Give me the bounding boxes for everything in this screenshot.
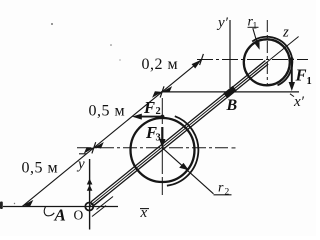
dimension line (parallel to shaft) xyxy=(23,60,202,207)
svg-text:1: 1 xyxy=(253,22,258,32)
svg-text:3: 3 xyxy=(156,133,161,144)
svg-text:y′: y′ xyxy=(216,15,229,31)
z axis (shaft axis extension) xyxy=(230,37,299,93)
force F3 arrow xyxy=(159,127,165,148)
svg-text:x: x xyxy=(140,205,148,221)
svg-text:0,5 м: 0,5 м xyxy=(22,160,59,177)
dimension tick t3 with double arrowheads xyxy=(152,86,172,98)
svg-text:0,5 м: 0,5 м xyxy=(89,103,126,120)
scan edge blob xyxy=(0,202,3,210)
pulley 1 (small) xyxy=(244,39,290,85)
pulley 2 (big) xyxy=(131,118,195,182)
force F1 arrow xyxy=(289,57,295,91)
svg-text:r: r xyxy=(218,181,224,196)
x' end tick xyxy=(290,94,294,97)
scan specks xyxy=(14,23,121,204)
svg-text:z: z xyxy=(282,25,289,41)
svg-text:y: y xyxy=(76,157,85,173)
dimension arrow at A end xyxy=(22,200,33,206)
pulley 2 vertical centre line xyxy=(161,98,163,195)
extension line at O level / x axis xyxy=(3,206,118,208)
dimension tick t2 with double arrowheads xyxy=(84,142,104,154)
pulley 2 outer rim arc xyxy=(167,116,198,186)
svg-text:1: 1 xyxy=(307,76,312,87)
svg-text:F: F xyxy=(295,66,307,85)
svg-text:2: 2 xyxy=(225,188,230,198)
force F2 arrow xyxy=(132,114,164,120)
dimension arrow at top end xyxy=(192,60,202,69)
svg-text:O: O xyxy=(74,208,84,223)
r1 leader with arrow xyxy=(248,27,260,50)
shaft (double line with axis) xyxy=(89,61,268,207)
svg-text:A: A xyxy=(54,206,66,225)
bearing B (black blob on shaft) xyxy=(223,86,236,99)
x' axis line through B xyxy=(161,91,299,93)
hatching at support O xyxy=(92,195,113,217)
bearing O circle xyxy=(85,203,93,211)
svg-text:0,2 м: 0,2 м xyxy=(142,56,179,73)
svg-text:2: 2 xyxy=(156,106,161,117)
y axis (vertical line through O) xyxy=(87,159,93,230)
y' axis line xyxy=(229,20,231,88)
pulley1 horizontal centre line xyxy=(197,59,308,61)
svg-text:F: F xyxy=(143,98,155,117)
dimension tick t4 xyxy=(200,54,204,65)
pulley 1 vertical centre line xyxy=(266,20,268,84)
r2 leader with arrow xyxy=(162,148,231,195)
pulley 1 outer rim arc xyxy=(252,37,292,85)
pulley2 horizontal centre line xyxy=(77,147,236,149)
svg-text:x′: x′ xyxy=(293,94,305,110)
svg-text:B: B xyxy=(226,97,238,114)
